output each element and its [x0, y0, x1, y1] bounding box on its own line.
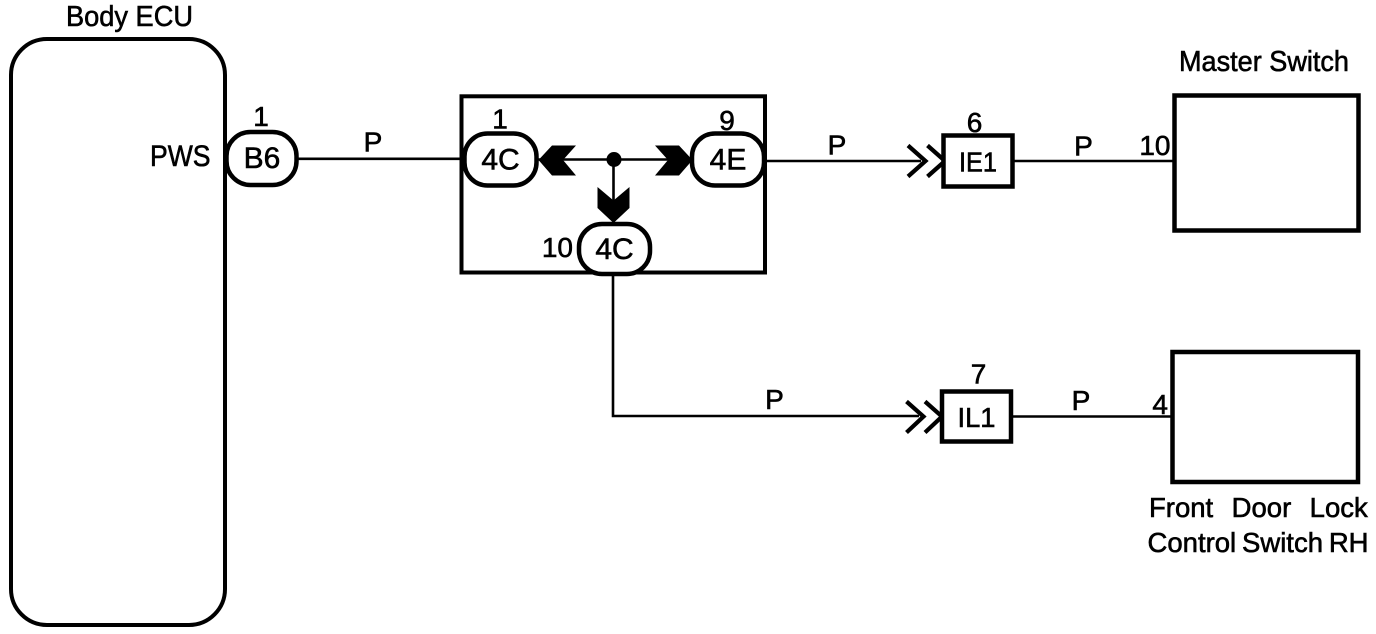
svg-text:P: P [765, 384, 784, 415]
wire: 4E to IE1 [762, 160, 921, 163]
block Body ECU outline [11, 39, 225, 625]
svg-text:IE1: IE1 [959, 147, 997, 178]
svg-text:Body ECU: Body ECU [66, 1, 193, 33]
connector IE1 [944, 136, 1013, 187]
svg-text:PWS: PWS [150, 140, 211, 173]
svg-text:Control Switch RH: Control Switch RH [1148, 527, 1369, 558]
wire: IL1 to Front Door Lock Control Switch [1011, 415, 1173, 418]
svg-text:1: 1 [253, 101, 269, 132]
connector 4C pin 1 [465, 134, 537, 186]
svg-text:Front Door Lock: Front Door Lock [1149, 492, 1368, 523]
connector 4E pin 9 [692, 134, 764, 186]
splice chevron 1 (IL1) [907, 402, 924, 433]
svg-text:1: 1 [492, 104, 508, 135]
svg-text:10: 10 [542, 232, 573, 263]
block Master Switch [1175, 96, 1359, 231]
wire: IE1 to Master Switch [1013, 160, 1175, 163]
arrow left toward 4C [539, 146, 577, 176]
wire: junction down to 4C pin 10 [612, 160, 615, 226]
splice chevron 1 (IE1) [908, 146, 926, 177]
connector IL1 [942, 392, 1011, 442]
svg-text:P: P [1072, 385, 1091, 416]
splice chevron 2 (IE1) [928, 146, 946, 177]
wire: 4C to 4E internal [537, 158, 693, 161]
junction node dot [607, 152, 622, 167]
svg-text:4E: 4E [710, 144, 747, 177]
connector 4C pin 10 [579, 224, 650, 274]
svg-text:IL1: IL1 [958, 402, 996, 433]
junction block box [462, 96, 766, 272]
block Front Door Lock Control Switch RH [1173, 352, 1359, 482]
wire P: B6 to 4C [297, 158, 466, 161]
svg-text:P: P [1074, 131, 1093, 162]
splice chevron 2 (IL1) [925, 402, 942, 433]
svg-text:10: 10 [1139, 130, 1170, 161]
svg-text:4C: 4C [481, 144, 519, 177]
arrow down toward 4C pin 10 [598, 187, 630, 223]
svg-text:P: P [364, 127, 383, 158]
svg-text:B6: B6 [244, 142, 281, 175]
arrow right toward 4E [655, 146, 693, 176]
connector B6 [227, 132, 297, 185]
svg-text:Master Switch: Master Switch [1179, 46, 1349, 78]
svg-text:4C: 4C [595, 233, 633, 266]
wire: 4C pin10 down and right to IL1 [613, 272, 919, 416]
svg-text:4: 4 [1152, 389, 1168, 420]
svg-text:P: P [828, 130, 847, 161]
svg-text:7: 7 [971, 359, 987, 390]
